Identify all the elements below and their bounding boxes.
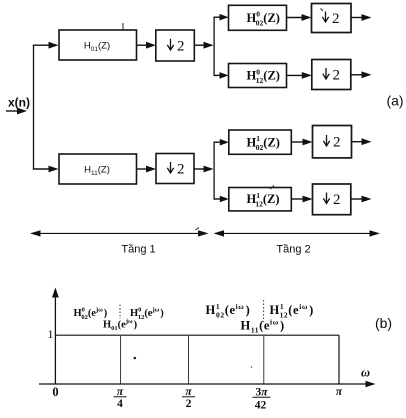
stray scan tick above H01 block	[122, 23, 124, 29]
downsampler D1 (down-arrow 2)	[156, 30, 195, 61]
plot b: divider line at pi/2	[188, 336, 190, 384]
plot b: divider line at pi/4	[120, 336, 122, 384]
downsampler D4 (down-arrow 2)	[156, 154, 194, 184]
svg-text:(a): (a)	[386, 93, 403, 109]
stray scan dot in plot b left cell	[134, 357, 137, 360]
wire H12^0 to downsampler D3	[287, 72, 312, 79]
svg-text:H012(Z): H012(Z)	[247, 67, 280, 85]
stray scan tick in D2	[321, 9, 324, 12]
svg-text:π: π	[117, 386, 124, 398]
svg-text:2: 2	[332, 11, 340, 27]
svg-text:H01(Z): H01(Z)	[84, 41, 110, 54]
wire D5 output arrow	[352, 138, 372, 145]
plot b: divider line at 3pi/4	[263, 336, 265, 384]
wire H12^1 to downsampler D6	[291, 196, 312, 203]
svg-text:H102(Z): H102(Z)	[247, 134, 280, 152]
svg-text:2: 2	[333, 135, 341, 151]
svg-text:H002(Z): H002(Z)	[247, 10, 280, 28]
wire D6 output arrow	[351, 196, 372, 203]
svg-text:2: 2	[333, 192, 341, 208]
wire branch to H12^1 with arrowhead	[214, 196, 229, 203]
filter block H01(Z)	[59, 30, 137, 60]
svg-text:0: 0	[52, 385, 58, 399]
svg-text:42: 42	[255, 400, 267, 412]
downsampler D3 (down-arrow 2)	[312, 60, 351, 90]
wire D4 to stage2 lower branch node	[194, 166, 214, 173]
wire D3 output arrow	[351, 71, 372, 78]
wire branch to H12^0 with arrowhead	[214, 72, 229, 79]
plot b: dotted separator at 3pi/4 above axis	[263, 300, 265, 322]
downsampler D6 (down-arrow 2)	[313, 184, 351, 215]
dimension arrow Tang 2 (double headed)	[214, 230, 381, 236]
stray scan dot in plot b near 3pi/4	[251, 366, 253, 368]
svg-text:2: 2	[333, 68, 341, 84]
filter block H02^0(Z)	[229, 5, 287, 30]
wire H02^0 to downsampler D2	[287, 14, 312, 21]
wire D1 to stage2 branch node	[194, 42, 213, 49]
plot b: dotted separator at pi/4 above axis	[119, 305, 121, 320]
svg-text:π: π	[185, 386, 192, 398]
svg-text:H11(Z): H11(Z)	[84, 165, 110, 178]
filter block H12^0(Z)	[229, 64, 287, 88]
stray scan accent over Z in H12^1	[271, 186, 275, 190]
svg-text:2: 2	[177, 39, 185, 55]
wire H02^1 to downsampler D5	[291, 139, 312, 146]
wire branch to H01 with arrowhead	[33, 42, 59, 49]
plot b: x-axis with arrow	[39, 381, 376, 387]
svg-text:(b): (b)	[375, 315, 392, 331]
plot b: response rectangle top edge	[55, 334, 339, 336]
svg-text:Tầng 2: Tầng 2	[276, 243, 310, 255]
wire branch to H02^0 with arrowhead	[214, 14, 229, 21]
dimension arrow Tang 1 (double headed)	[30, 230, 209, 236]
wire stage2 lower branch vertical line	[213, 142, 215, 200]
downsampler D2 (down-arrow 2)	[312, 4, 352, 33]
wire D2 output arrow	[351, 14, 372, 21]
svg-text:1: 1	[48, 327, 54, 341]
wire input arrow into branch node	[6, 108, 27, 115]
svg-text:H112(Z): H112(Z)	[247, 191, 280, 209]
wire branch to H02^1 with arrowhead	[214, 139, 229, 146]
plot b: y-axis with arrow	[52, 288, 59, 385]
svg-text:H102(eiω): H102(eiω)	[206, 302, 251, 320]
filter block H12^1(Z)	[229, 188, 291, 211]
wire branch to H11 with arrowhead	[33, 166, 59, 173]
plot b: response rectangle right edge	[338, 335, 340, 384]
svg-text:3π: 3π	[255, 386, 268, 398]
filter block H02^1(Z)	[229, 130, 291, 154]
svg-text:Tầng 1: Tầng 1	[121, 243, 155, 255]
downsampler D5 (down-arrow 2)	[313, 126, 352, 158]
svg-text:H01(ejω): H01(ejω)	[103, 318, 138, 332]
svg-text:x(n): x(n)	[8, 96, 30, 110]
filter block H11(Z)	[59, 154, 137, 184]
svg-text:ω: ω	[361, 366, 370, 380]
svg-text:4: 4	[117, 398, 123, 410]
wire stage2 upper branch vertical line	[213, 17, 215, 76]
wire H11 to downsampler D4	[137, 166, 157, 173]
svg-text:H11(eiω): H11(eiω)	[241, 317, 285, 334]
stray scan tick near Tang1 arrow end	[196, 228, 200, 231]
wire input branch vertical line	[33, 45, 35, 170]
svg-text:2: 2	[177, 162, 185, 178]
svg-text:π: π	[336, 386, 343, 398]
svg-text:2: 2	[186, 398, 192, 410]
wire H01 to downsampler D1	[137, 42, 157, 49]
